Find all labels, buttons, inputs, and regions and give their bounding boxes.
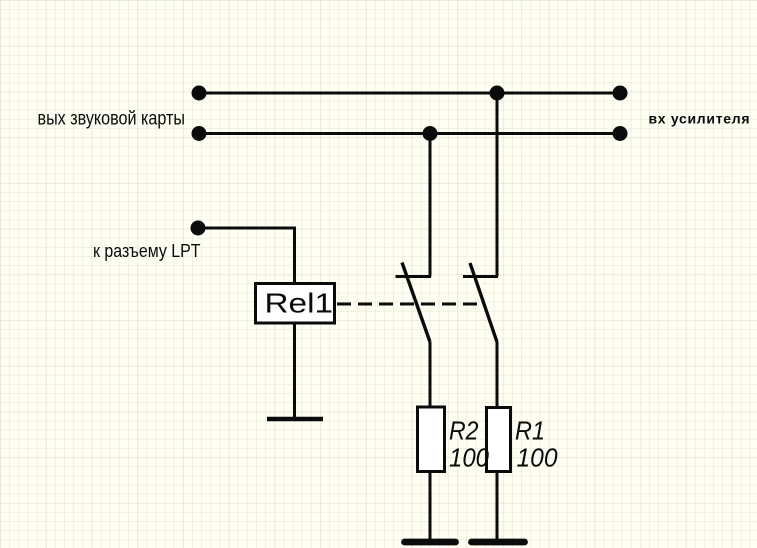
svg-text:вых звуковой карты: вых звуковой карты (38, 109, 186, 130)
svg-text:вх усилителя: вх усилителя (649, 111, 750, 127)
svg-text:100: 100 (517, 443, 559, 473)
svg-text:к разъему LPT: к разъему LPT (93, 241, 201, 261)
svg-text:Rel1: Rel1 (265, 288, 334, 319)
svg-text:R1: R1 (515, 416, 545, 446)
svg-text:R2: R2 (449, 416, 479, 446)
svg-text:100: 100 (449, 443, 489, 473)
